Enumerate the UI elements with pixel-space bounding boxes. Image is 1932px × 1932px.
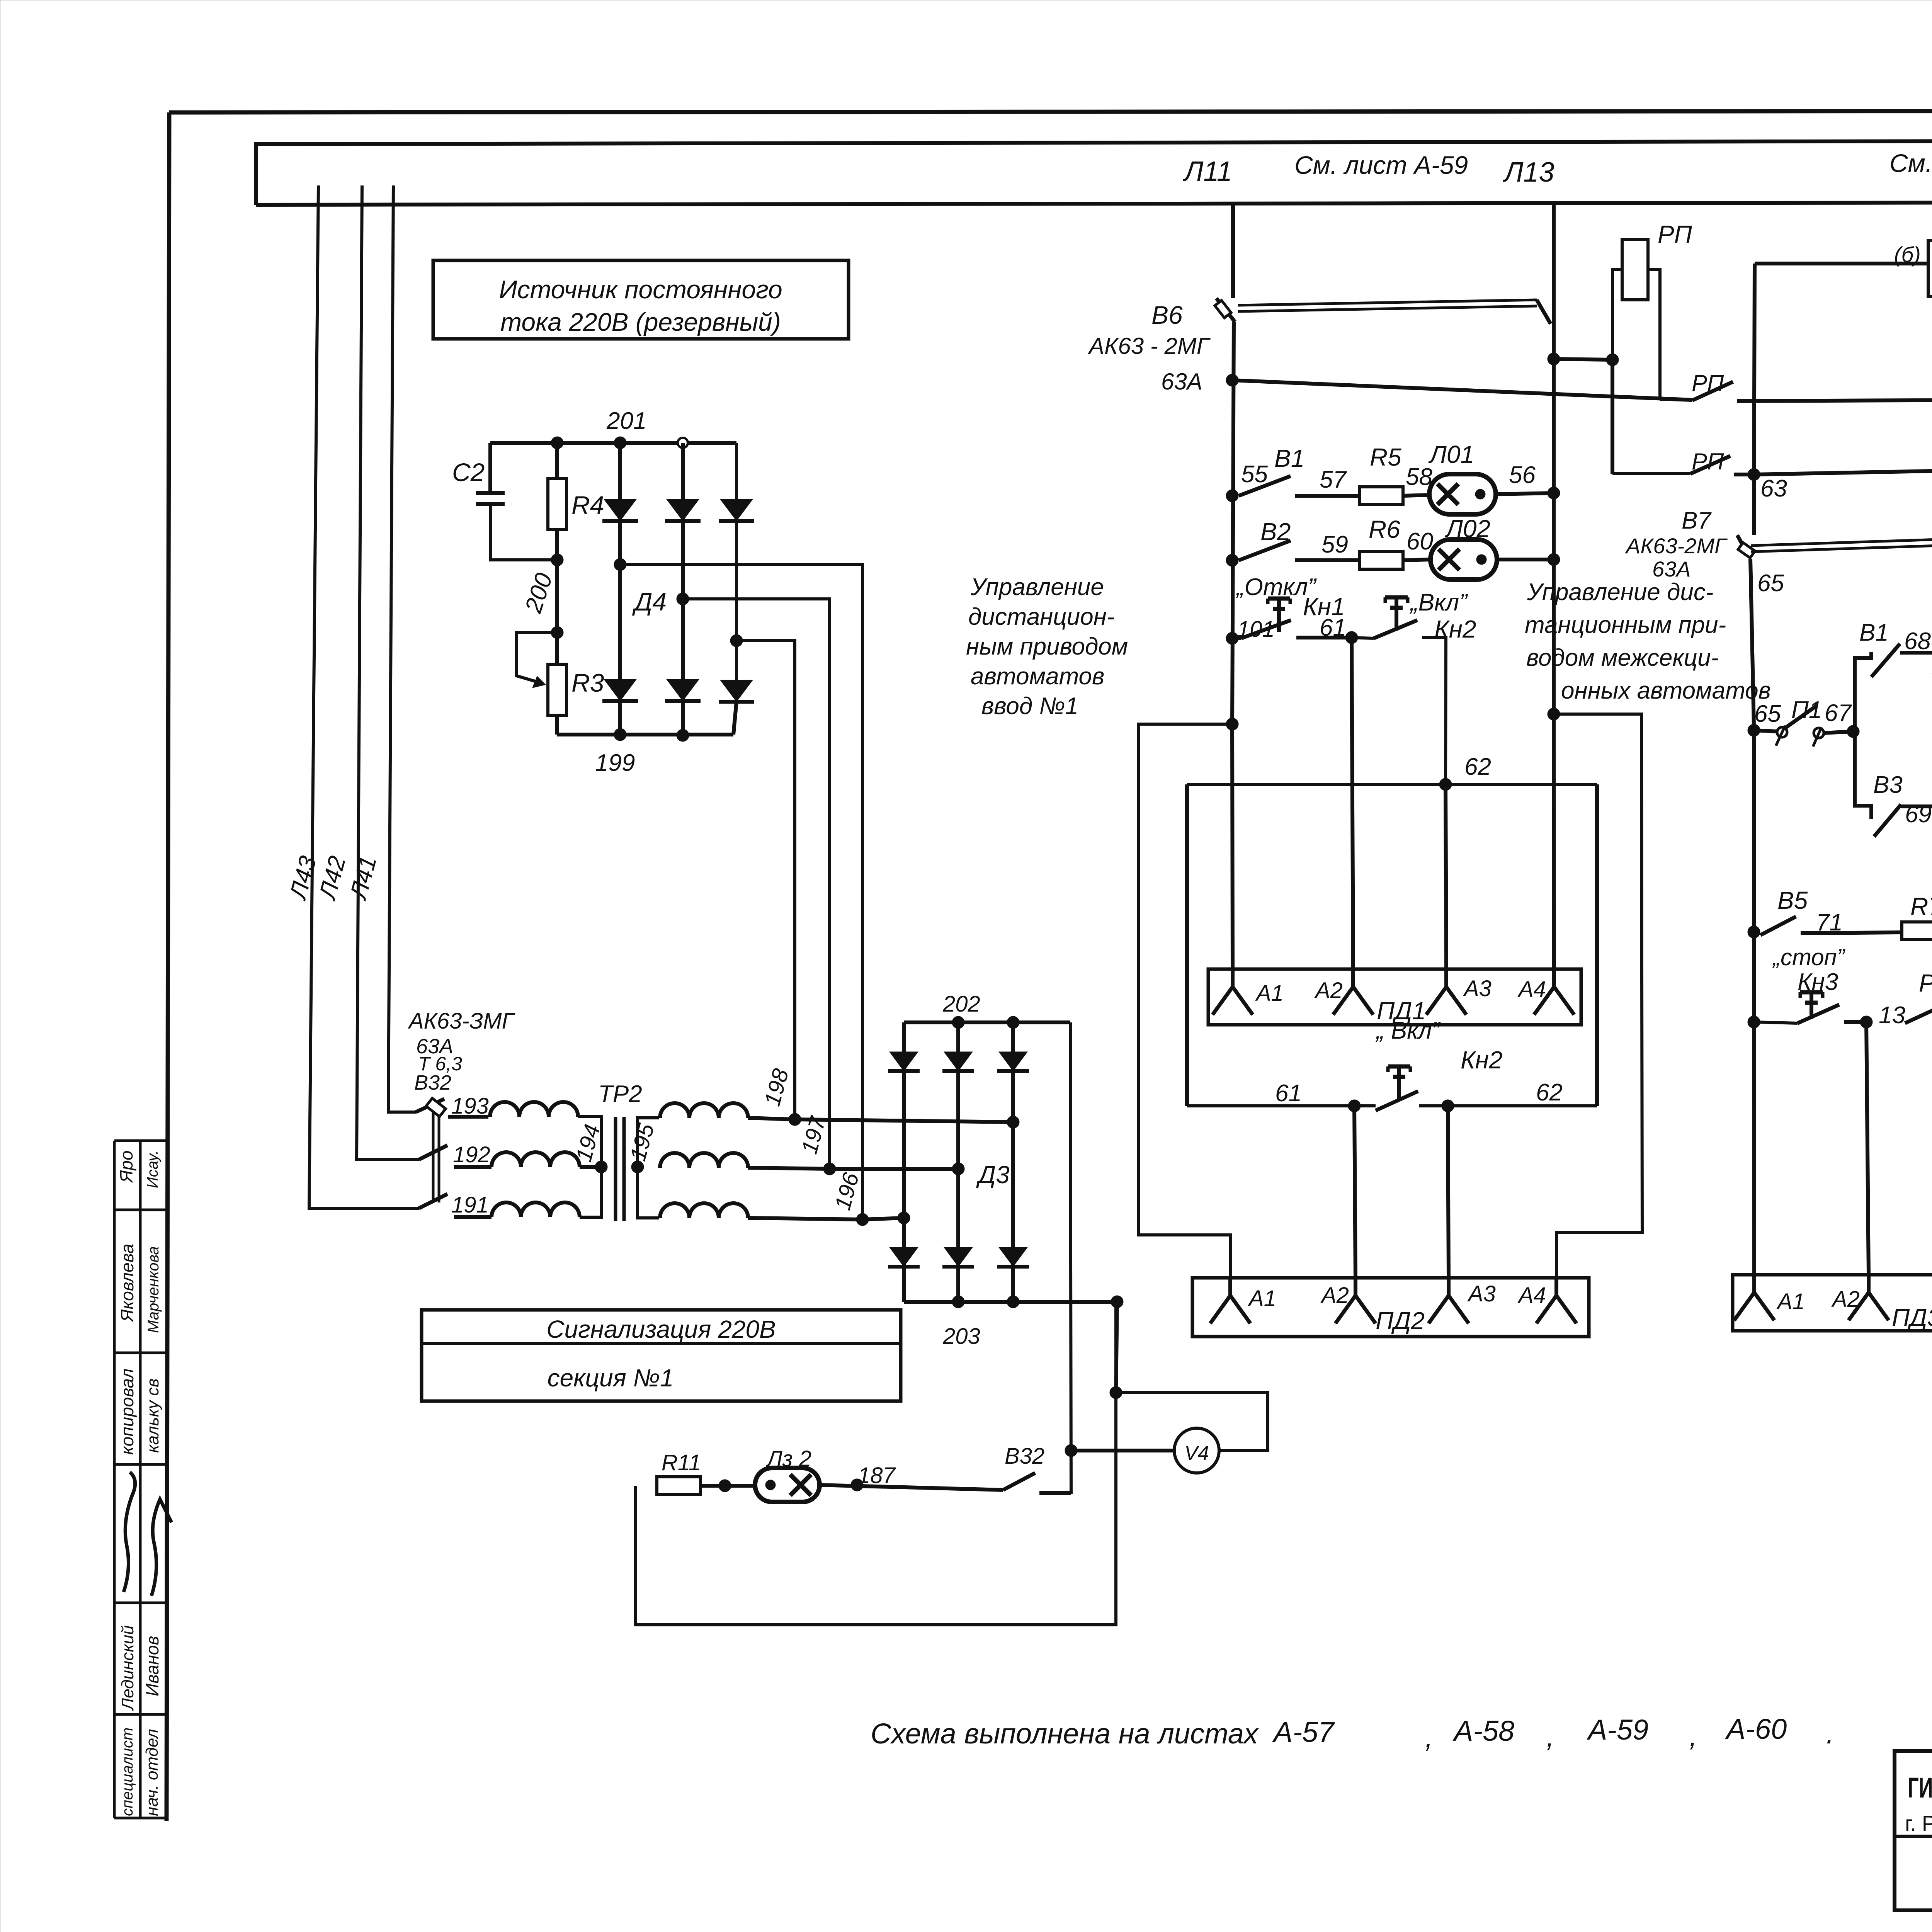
junction dot node 198 bbox=[789, 1113, 801, 1126]
signature scribble 1 bbox=[124, 1472, 135, 1592]
junction dot Л13/56 bbox=[1548, 487, 1560, 499]
wire 63 column (РМН5 box left) bbox=[1754, 264, 1755, 535]
wire 57 bbox=[1295, 494, 1359, 498]
button Кн3 blade bbox=[1754, 1022, 1798, 1023]
svg-text:203: 203 bbox=[942, 1324, 980, 1349]
breaker В7 left blade bbox=[1737, 535, 1750, 558]
svg-text:В1: В1 bbox=[1274, 444, 1304, 472]
wire 71 bbox=[1801, 932, 1901, 933]
signature table divider y=4705 bbox=[114, 1817, 167, 1820]
diode Д4-2 bottom bbox=[667, 679, 699, 701]
connector box ПД3 (middle) bbox=[1733, 1275, 1932, 1331]
wire Л13 column to ПД1 А4 bbox=[1554, 714, 1554, 969]
svg-text:кальку св: кальку св bbox=[143, 1378, 162, 1453]
lamp Л02 bbox=[1430, 539, 1497, 580]
svg-text:,: , bbox=[1546, 1721, 1554, 1753]
wire to ПД2 А3 bbox=[1448, 1106, 1449, 1278]
svg-text:А4: А4 bbox=[1517, 1283, 1546, 1308]
svg-text:Марченкова: Марченкова bbox=[145, 1246, 162, 1333]
wire long rail Л11 to РП-1 bbox=[1232, 380, 1692, 400]
relay РП bracket right bbox=[1648, 269, 1660, 399]
junction dot Л11/В1 bbox=[1226, 490, 1238, 502]
junction dot Л13/РП bracket bbox=[1548, 353, 1560, 365]
wire winding 193 to star point bbox=[578, 1117, 601, 1167]
wire Д3 column 1 bbox=[902, 1022, 906, 1302]
box Сигнализация divider bbox=[422, 1342, 901, 1345]
button Кн1 head bbox=[1268, 597, 1290, 601]
wire 62 rail bbox=[1187, 783, 1597, 786]
relay coil РП bbox=[1622, 240, 1648, 300]
svg-text:R3: R3 bbox=[571, 668, 604, 697]
button Кн3 head bbox=[1800, 990, 1823, 995]
svg-text:Исау.: Исау. bbox=[144, 1150, 161, 1188]
svg-text:71: 71 bbox=[1816, 909, 1843, 936]
wire Д4 col3 mid to 198 feeder bbox=[736, 641, 795, 1120]
capacitor C2 top lead bbox=[488, 443, 492, 492]
junction dot V4 tap bbox=[1065, 1444, 1077, 1457]
svg-text:199: 199 bbox=[595, 750, 635, 776]
junction dot 201/R4 bbox=[551, 437, 563, 449]
svg-text:R11: R11 bbox=[662, 1450, 701, 1475]
breaker В6 linkage double line bbox=[1238, 300, 1537, 305]
svg-text:Л13: Л13 bbox=[1503, 157, 1554, 188]
page frame left edge bbox=[167, 112, 169, 1821]
junction dot 63/РП rail bbox=[1748, 468, 1760, 481]
contact В2 blade bbox=[1239, 541, 1291, 560]
wire winding 191 to star point bbox=[580, 1167, 601, 1217]
svg-text:61: 61 bbox=[1275, 1080, 1302, 1107]
svg-text:В32: В32 bbox=[1005, 1444, 1044, 1469]
svg-text:г. Ростов-на-Дону 1976г.: г. Ростов-на-Дону 1976г. bbox=[1905, 1811, 1932, 1835]
junction dot Д4 col1 mid bbox=[614, 558, 626, 571]
svg-text:Лз 2: Лз 2 bbox=[765, 1446, 811, 1471]
title box Источник постоянного тока 220В (резервный) bbox=[433, 260, 849, 339]
wire Кн2 column to ПД1 А3 bbox=[1446, 784, 1446, 969]
junction dot 201/diode1 bbox=[614, 437, 626, 449]
wire 202 corner drop to В32 node bbox=[1070, 1022, 1071, 1494]
svg-text:РП: РП bbox=[1692, 370, 1724, 396]
svg-text:АК63-ЗМГ: АК63-ЗМГ bbox=[408, 1009, 516, 1034]
svg-text:61: 61 bbox=[1320, 614, 1346, 641]
wire Л41 vertical drop bbox=[388, 185, 416, 1112]
wire winding 192 to star point bbox=[580, 1165, 601, 1169]
junction dot 62/Кн2 bbox=[1439, 778, 1452, 791]
lamp Л01 bbox=[1429, 474, 1496, 514]
junction dot node 200 top bbox=[551, 554, 563, 566]
wire Д4 col1 mid to 196 feeder bbox=[620, 565, 862, 1219]
contact В1 blade bbox=[1239, 476, 1291, 496]
wire pole2 to winding 192 bbox=[454, 1165, 492, 1169]
svg-text:,: , bbox=[1425, 1721, 1433, 1753]
wire Кн1-Кн2 column to ПД1 А2 bbox=[1352, 638, 1353, 969]
signature table divider y=4437 bbox=[114, 1713, 167, 1716]
svg-text:R7: R7 bbox=[1910, 893, 1932, 920]
svg-text:В5: В5 bbox=[1777, 886, 1808, 914]
junction dot node 196 bbox=[856, 1213, 869, 1226]
transformer ТР2 secondary winding bottom bbox=[660, 1203, 748, 1218]
signature scribble 2 bbox=[151, 1499, 172, 1596]
wire 59 bbox=[1295, 558, 1359, 562]
wire Л13 from bus bbox=[1552, 204, 1556, 359]
svg-text:А4: А4 bbox=[1517, 977, 1546, 1002]
wire Л11 below В6 bbox=[1232, 322, 1234, 724]
wire outer loop left (ПД1-ПД2) bbox=[1139, 724, 1232, 1278]
svg-text:См. лист А-59: См. лист А-59 bbox=[1294, 151, 1468, 179]
wire 65 column middle bbox=[1752, 726, 1756, 1022]
wire inner loop bottom right part bbox=[1419, 1104, 1597, 1107]
connector ПД1 pin А1 bbox=[1231, 969, 1235, 987]
svg-text:Иванов: Иванов bbox=[142, 1636, 162, 1696]
svg-text:ПД2: ПД2 bbox=[1376, 1307, 1425, 1335]
wire РП bracket left drop bbox=[1611, 360, 1614, 474]
wire Л43 vertical drop bbox=[309, 185, 419, 1208]
svg-text:Л11: Л11 bbox=[1183, 156, 1232, 187]
wire Д3 column 3 bbox=[1011, 1022, 1015, 1302]
svg-text:Схема выполнена на листах: Схема выполнена на листах bbox=[871, 1718, 1259, 1750]
svg-text:нач. отдел: нач. отдел bbox=[143, 1729, 162, 1816]
wire Л13 column upper bbox=[1552, 359, 1556, 714]
diode Д4-1 bottom bbox=[604, 679, 636, 701]
connector ПД3 pin А1 bbox=[1752, 1275, 1756, 1293]
svg-text:67: 67 bbox=[1825, 700, 1852, 726]
svg-text:R5: R5 bbox=[1370, 443, 1401, 471]
breaker В32 pole 2 blade bbox=[419, 1145, 447, 1160]
svg-text:201: 201 bbox=[606, 408, 646, 434]
junction dot 199/col1 bbox=[614, 728, 626, 741]
diode Д3-1 bottom bbox=[889, 1247, 918, 1267]
wire node 203 horizontal bbox=[904, 1300, 1117, 1304]
wire R4 bottom lead bbox=[555, 529, 559, 560]
wire R4 top lead bbox=[555, 443, 559, 478]
diode Д4-2 top bbox=[667, 499, 699, 521]
wire to ПД2 А2 bbox=[1354, 1106, 1355, 1278]
junction dot Кн2-line/А3 bbox=[1442, 1100, 1454, 1112]
wire inner loop bottom (61-62) bbox=[1187, 1104, 1376, 1107]
breaker В6 left blade bbox=[1216, 298, 1235, 322]
signature table divider y=4148 bbox=[114, 1602, 167, 1604]
connector ПД1 pin А2 bbox=[1351, 969, 1355, 987]
capacitor C2 plates bbox=[476, 491, 505, 495]
svg-text:А2: А2 bbox=[1831, 1287, 1860, 1312]
breaker В6 right blade bbox=[1537, 300, 1551, 324]
potentiometer R3 tap arm bbox=[517, 633, 557, 683]
junction dot node 67 bbox=[1847, 725, 1859, 738]
svg-text:Л02: Л02 bbox=[1444, 515, 1490, 543]
capacitor C2 bottom lead bbox=[490, 504, 557, 560]
junction dot Л11/В2 bbox=[1226, 554, 1238, 566]
svg-text:Управление: Управление bbox=[970, 574, 1104, 600]
wire 65 column to ПД3 А1 bbox=[1754, 1022, 1754, 1275]
svg-text:онных автоматов: онных автоматов bbox=[1561, 677, 1771, 704]
wire pole3 to winding 191 bbox=[454, 1215, 492, 1219]
svg-text:68: 68 bbox=[1904, 628, 1931, 655]
breaker В32 pole 1 blade bbox=[416, 1099, 444, 1112]
transformer ТР2 primary winding 191 bbox=[492, 1202, 580, 1217]
svg-text:65: 65 bbox=[1754, 701, 1781, 727]
svg-text:ПД3: ПД3 bbox=[1892, 1304, 1932, 1332]
connector ПД2 pin А3 bbox=[1447, 1278, 1451, 1296]
wire R3 bottom lead bbox=[555, 715, 559, 735]
svg-text:,: , bbox=[1689, 1720, 1697, 1752]
svg-text:А-58: А-58 bbox=[1452, 1715, 1514, 1747]
svg-text:А-60: А-60 bbox=[1725, 1713, 1787, 1745]
wire node 202 horizontal bbox=[904, 1020, 1070, 1024]
signature table verticals bbox=[113, 1141, 116, 1818]
svg-text:РП: РП bbox=[1658, 220, 1692, 248]
svg-text:„стоп”: „стоп” bbox=[1772, 944, 1846, 970]
svg-text:R4: R4 bbox=[571, 491, 604, 519]
wire pole1 to winding 193 bbox=[448, 1115, 488, 1119]
relay coil РМН5 bbox=[1928, 241, 1932, 296]
box Сигнализация 220В секция №1 bbox=[422, 1310, 901, 1401]
resistor R6 bbox=[1359, 551, 1403, 569]
svg-text:А-59: А-59 bbox=[1587, 1714, 1648, 1746]
wire 63 to РП-B bbox=[1754, 468, 1932, 474]
wire Кн2 to 62 drop bbox=[1422, 638, 1446, 784]
svg-text:Яковлева: Яковлева bbox=[117, 1244, 137, 1323]
svg-text:„Вкл”: „Вкл” bbox=[1409, 589, 1468, 616]
wire 65 to П1 bbox=[1754, 730, 1777, 731]
junction dot 199/col2 bbox=[677, 729, 689, 742]
svg-text:А2: А2 bbox=[1320, 1283, 1349, 1308]
wire В1/В4 branch bbox=[1855, 652, 1871, 726]
svg-text:63А: 63А bbox=[1161, 369, 1202, 395]
diode Д3-2 top bbox=[944, 1052, 973, 1071]
wire node 200 vertical bbox=[555, 560, 559, 664]
diode Д4-3 bottom bbox=[720, 680, 753, 702]
svg-text:62: 62 bbox=[1464, 753, 1491, 780]
svg-text:автоматов: автоматов bbox=[971, 663, 1104, 690]
svg-text:59: 59 bbox=[1321, 531, 1348, 558]
wire Д4 column 3 lower bbox=[733, 702, 736, 735]
transformer ТР2 core bars bbox=[614, 1117, 617, 1221]
svg-text:.: . bbox=[1826, 1718, 1834, 1750]
svg-text:секция №1: секция №1 bbox=[548, 1364, 674, 1392]
svg-text:дистанцион-: дистанцион- bbox=[968, 604, 1114, 630]
wire 62 rail left drop bbox=[1185, 784, 1189, 1106]
svg-text:62: 62 bbox=[1536, 1079, 1563, 1106]
svg-text:А3: А3 bbox=[1463, 976, 1492, 1001]
junction dot Л13/outer loop bbox=[1548, 708, 1560, 720]
svg-text:См. лист А-59: См. лист А-59 bbox=[1889, 149, 1932, 177]
junction dot secondary star bbox=[631, 1161, 644, 1173]
svg-text:АК63 - 2МГ: АК63 - 2МГ bbox=[1088, 333, 1211, 359]
junction dot after R11 bbox=[719, 1480, 731, 1492]
junction dot node 187 bbox=[851, 1479, 863, 1491]
transformer ТР2 secondary winding top bbox=[660, 1103, 748, 1118]
svg-text:копировал: копировал bbox=[117, 1369, 137, 1455]
wire Л11 column to ПД1 А1 bbox=[1232, 724, 1233, 969]
svg-text:57: 57 bbox=[1320, 466, 1347, 493]
title block left divider bbox=[1895, 1835, 1932, 1838]
resistor R5 bbox=[1359, 487, 1403, 505]
svg-text:В1: В1 bbox=[1859, 619, 1889, 646]
transformer ТР2 secondary winding mid bbox=[660, 1153, 748, 1168]
wire outer loop right (ПД1-ПД2) bbox=[1554, 714, 1642, 1278]
svg-text:63А: 63А bbox=[1652, 557, 1691, 581]
relay РП bracket left bbox=[1612, 269, 1622, 360]
junction dot 203/drop bbox=[1111, 1296, 1123, 1308]
svg-text:187: 187 bbox=[858, 1463, 896, 1488]
connector ПД1 pin А3 bbox=[1444, 969, 1448, 987]
svg-text:Д4: Д4 bbox=[632, 587, 667, 616]
svg-text:А1: А1 bbox=[1255, 981, 1284, 1006]
svg-text:РП: РП bbox=[1692, 449, 1724, 474]
svg-text:танционным при-: танционным при- bbox=[1525, 612, 1726, 638]
button Кн2 lower blade bbox=[1376, 1091, 1418, 1111]
wire 58 bbox=[1403, 495, 1429, 496]
button Кн1 blade bbox=[1232, 637, 1241, 640]
junction dot 65/Кн3 bbox=[1748, 1016, 1760, 1028]
resistor R11 bbox=[657, 1477, 701, 1495]
junction dot 203/col3 bbox=[1007, 1296, 1019, 1308]
wire Д4 column 3 bbox=[735, 443, 738, 680]
button Кн2 lower head bbox=[1388, 1065, 1410, 1069]
svg-text:ГИПРОСТРОЙДОРМАШ: ГИПРОСТРОЙДОРМАШ bbox=[1908, 1771, 1932, 1804]
junction dot 202/col2 bbox=[952, 1016, 964, 1029]
svg-text:В6: В6 bbox=[1151, 301, 1183, 329]
diode Д3-3 top bbox=[999, 1052, 1027, 1071]
wire В3/В2 branch bbox=[1855, 726, 1871, 819]
wire secondary mid to node 197 bbox=[748, 1168, 830, 1169]
wire node 201 horizontal bbox=[490, 441, 736, 445]
wire Л11 from bus bbox=[1231, 204, 1235, 298]
wire node 199 horizontal bbox=[557, 733, 733, 736]
svg-text:П1: П1 bbox=[1791, 697, 1822, 723]
wire Д4 column 1 bbox=[618, 443, 622, 735]
wire РП-2 to 63 node bbox=[1734, 473, 1754, 476]
junction dot Л13/Л02 bbox=[1548, 553, 1560, 566]
svg-text:водом межсекци-: водом межсекци- bbox=[1526, 645, 1719, 671]
svg-text:ным приводом: ным приводом bbox=[966, 633, 1128, 660]
svg-text:А-57: А-57 bbox=[1272, 1716, 1335, 1748]
signature table divider y=3790 bbox=[114, 1463, 167, 1466]
svg-text:С2: С2 bbox=[452, 458, 485, 486]
wire node 196 to Д3 col1 bbox=[862, 1218, 904, 1219]
page frame top edge bbox=[169, 111, 1932, 112]
wire 56 bbox=[1496, 493, 1554, 494]
wire Д4 col2 mid to 197 feeder bbox=[683, 599, 830, 1168]
junction dot Д4 col2 mid bbox=[677, 593, 689, 605]
plug П1 contact circles bbox=[1777, 727, 1787, 737]
svg-text:55: 55 bbox=[1241, 461, 1268, 488]
junction dot 202/col3 bbox=[1007, 1016, 1019, 1029]
junction dot Д3 col1 mid bbox=[898, 1212, 910, 1224]
wire РМН5 box top left bbox=[1755, 262, 1928, 265]
connector box ПД1 bbox=[1208, 969, 1581, 1025]
junction dot РП bracket left bbox=[1606, 354, 1619, 366]
connector ПД1 pin А4 bbox=[1552, 969, 1556, 987]
svg-text:Источник постоянного: Источник постоянного bbox=[499, 275, 782, 304]
resistor R7 bbox=[1902, 922, 1932, 940]
wire between В1 and В4 bbox=[1900, 651, 1932, 655]
voltmeter V4 circle bbox=[1174, 1428, 1219, 1473]
svg-text:АК63-2МГ: АК63-2МГ bbox=[1625, 534, 1728, 558]
wire РП-1 to РМН5 rail bbox=[1737, 400, 1932, 401]
junction dot V4 return bbox=[1110, 1386, 1122, 1399]
wire 65 column upper bbox=[1750, 559, 1754, 726]
signature table divider y=3501 bbox=[114, 1352, 167, 1354]
wire Д3 column 2 bbox=[956, 1022, 960, 1302]
svg-text:192: 192 bbox=[453, 1142, 490, 1167]
contact РП-2 blade bbox=[1612, 472, 1690, 475]
wire between В3 and В2 bbox=[1901, 804, 1932, 808]
resistor R4 bbox=[548, 478, 566, 529]
svg-text:202: 202 bbox=[942, 992, 980, 1017]
wire node 197 to Д3 col2 bbox=[830, 1167, 958, 1171]
button Кн2 head bbox=[1385, 595, 1408, 600]
wire Лз2 to node 187 bbox=[819, 1485, 1003, 1490]
wire Кн1 to Кн2 bbox=[1296, 636, 1352, 639]
connector ПД2 pin А4 bbox=[1554, 1278, 1558, 1296]
svg-text:А3: А3 bbox=[1467, 1281, 1496, 1306]
plug П1 blade bbox=[1785, 706, 1817, 728]
svg-text:63: 63 bbox=[1760, 475, 1787, 502]
breaker В32 tie bar bbox=[432, 1102, 435, 1202]
diode Д4-3 top bbox=[720, 499, 753, 521]
voltmeter V4 wire right bbox=[1116, 1393, 1268, 1451]
wire Д4 column 2 bbox=[681, 443, 685, 735]
svg-text:В32: В32 bbox=[414, 1071, 451, 1094]
wire secondary star to winding top bbox=[638, 1118, 659, 1167]
terminal open circle 201/diode2 bbox=[678, 438, 688, 448]
svg-text:Яро: Яро bbox=[116, 1150, 136, 1184]
junction dot node 194 (primary star) bbox=[595, 1161, 607, 1173]
svg-text:В7: В7 bbox=[1682, 507, 1712, 534]
junction dot Л11/Кн1 bbox=[1226, 632, 1238, 645]
svg-text:65: 65 bbox=[1757, 570, 1784, 597]
svg-text:Лединский: Лединский bbox=[118, 1625, 137, 1711]
svg-text:А2: А2 bbox=[1314, 978, 1343, 1003]
lamp Лз2 bbox=[755, 1468, 820, 1502]
junction dot 65/П1 bbox=[1748, 724, 1760, 736]
signature table divider y=3131 bbox=[114, 1209, 167, 1211]
diode Д3-1 top bbox=[889, 1052, 918, 1071]
junction dot Кн3/А2 drop bbox=[1860, 1016, 1872, 1028]
resistor R3 bbox=[548, 664, 566, 715]
svg-text:В2: В2 bbox=[1260, 518, 1291, 546]
junction dot R3 tap bbox=[551, 626, 563, 639]
wire secondary top to node 198 bbox=[748, 1118, 795, 1119]
svg-text:60: 60 bbox=[1406, 528, 1433, 555]
potentiometer R3 arrow head bbox=[532, 676, 546, 688]
wire bottom loop left/bottom bbox=[636, 1302, 1116, 1625]
junction dot node 197 bbox=[823, 1163, 836, 1175]
junction dot 65/В5 bbox=[1748, 926, 1760, 938]
contact В5 blade bbox=[1760, 917, 1796, 935]
svg-text:Сигнализация 220В: Сигнализация 220В bbox=[546, 1315, 776, 1343]
wire node 198 to Д3 col3 bbox=[795, 1119, 1013, 1122]
contact В1 blade (middle) bbox=[1871, 644, 1900, 677]
svg-text:„ Вкл”: „ Вкл” bbox=[1375, 1017, 1440, 1044]
diode Д4-1 top bbox=[604, 499, 636, 521]
wire R11 to Лз2 bbox=[700, 1484, 755, 1488]
contact РП-1 blade bbox=[1660, 399, 1692, 400]
wire Л42 vertical drop bbox=[357, 185, 419, 1160]
contact Р3 blade bbox=[1905, 1004, 1932, 1023]
junction dot 203/col2 bbox=[952, 1296, 964, 1308]
junction dot Кн1/Кн2 bbox=[1345, 631, 1358, 644]
connector ПД2 pin А1 bbox=[1228, 1278, 1232, 1296]
main 220V bus bar (rectangle) bbox=[256, 140, 1932, 205]
connector ПД3 pin А2 bbox=[1867, 1275, 1871, 1293]
svg-text:193: 193 bbox=[451, 1094, 489, 1119]
svg-text:Д3: Д3 bbox=[976, 1161, 1010, 1189]
svg-text:ввод №1: ввод №1 bbox=[981, 693, 1078, 719]
wire Л13 to РП bracket bbox=[1554, 359, 1612, 360]
breaker В7 linkage double line bbox=[1751, 535, 1932, 546]
junction dot Л11/long rail bbox=[1226, 374, 1238, 386]
